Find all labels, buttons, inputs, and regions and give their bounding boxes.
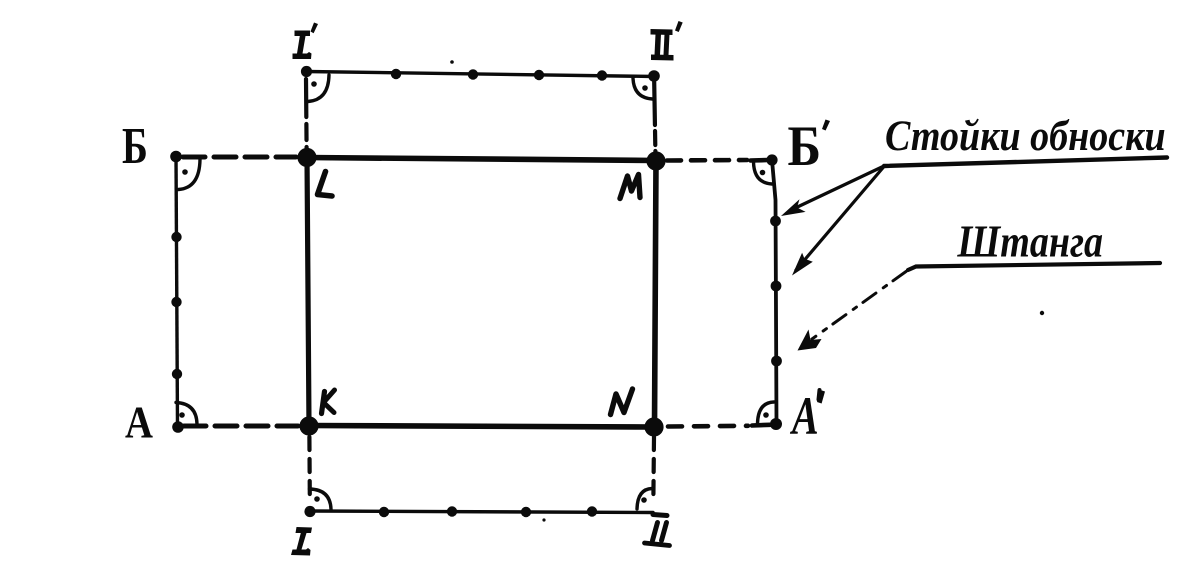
right-angle arc at corner I [310,489,332,510]
prime of A' [817,390,825,404]
node: corner point II' [648,70,660,82]
label K (building corner) [322,390,335,414]
node N (building corner) [644,417,663,436]
leader line under "Штанга" [908,263,1160,270]
node: stake dot on right axis [770,216,781,227]
node: corner point A [172,421,184,433]
right-angle dot at corner II' [642,85,648,91]
label M (building corner) [620,175,640,199]
arrowhead at lower stake [792,253,813,276]
arrow shaft to lower stake (stoyki) [796,167,884,271]
arrow shaft to upper stake (stoyki) [790,166,884,211]
node: stake dot on bottom axis [521,507,531,517]
label N (building corner) [611,389,633,415]
right-angle dot at corner B' [760,170,766,176]
node: stake dot on top axis [534,70,544,80]
label L (building corner) [318,172,333,197]
arrowhead (shtanga) [798,330,822,351]
wire: dashed tie N to II [651,437,656,496]
label II (bottom-right axis mark, underlined) [645,523,670,546]
right-angle arc at corner II [637,489,652,510]
wire: dashed tie N to A' [668,423,748,428]
right-angle arc at corner I' [308,75,329,102]
svg-text:Б: Б [788,114,822,177]
right-angle dot at corner A [179,412,185,418]
right-angle arc at corner II' [633,79,653,100]
arrowhead at upper stake [781,199,806,216]
node: stake dot on top axis [597,70,607,80]
node L (building corner) [297,148,316,167]
wire: dashed tie A to K [184,424,298,429]
label II' (top-right axis mark) [651,21,683,61]
ink dash below shtanga arrow [819,390,820,400]
wire: left axis line B-A [176,156,178,427]
node M (building corner) [646,151,665,170]
right-angle arc at corner A' [758,402,775,424]
node: corner point II with stub [653,515,667,516]
node: stake dot on left axis [171,297,181,307]
label I' (top-left axis mark) [293,23,319,60]
node: corner point A' [770,418,782,430]
wire: dashed tie K to I [307,437,312,496]
svg-text:Штанга: Штанга [956,218,1103,268]
node: stake dot on bottom axis [587,506,597,516]
right-angle arc at corner B' [754,162,773,184]
node: corner point B' [766,154,777,165]
right-angle dot at corner II [641,497,647,503]
right-angle dot at corner I [314,496,320,502]
prime of B' [822,120,830,131]
wire: main rectangle side L-K (thick) [307,158,309,427]
svg-text:Б: Б [122,117,148,175]
right-angle dot at corner A' [763,412,769,418]
wire: main rectangle side K-N (thick) [309,426,654,428]
right-angle dot at corner B [182,169,188,175]
right-angle dot at corner I' [311,81,317,87]
node: corner point I' [301,66,312,77]
leader line under "Стойки обноски" [884,158,1167,167]
ink speck below bottom axis [542,518,545,521]
node: stake dot on left axis [172,369,182,379]
node K (building corner) [299,416,318,435]
svg-text:Стойки обноски: Стойки обноски [885,112,1166,160]
right-angle arc at corner B [179,160,201,190]
wire: dashed tie I' to L [304,79,309,149]
wire: top axis line I'-II' [306,72,654,77]
svg-text:А: А [789,387,818,446]
node: corner point I [304,506,315,517]
node: stake dot on right axis [771,281,782,292]
node: stake dot on top axis [468,69,478,79]
node: stake dot on right axis [771,356,782,367]
wire: dashed tie B to L [183,155,296,160]
node: stake dot on top axis [391,69,401,79]
wire: dashed tie M to B' [667,158,747,163]
label I (bottom-left axis mark) [291,527,312,556]
right-angle arc at corner A [176,403,197,425]
wire: dashed tie II' to M [654,82,655,152]
wire: main rectangle side L-M (thick) [307,158,656,161]
svg-text:А: А [125,399,153,448]
wire: right axis line B'-A' (stand with dots) [772,160,777,424]
wire: bottom axis line I-II [310,511,653,513]
dash-dot arrow shaft (shtanga) [812,272,906,340]
node: stake dot on bottom axis [447,506,457,516]
node: stake dot on left axis [171,232,181,242]
node: corner point B [170,151,182,163]
ink speck above top axis [450,60,454,64]
node: stake dot on bottom axis [379,507,389,517]
wire: main rectangle side M-N (thick) [655,161,657,427]
ink speck right middle [1040,311,1044,315]
